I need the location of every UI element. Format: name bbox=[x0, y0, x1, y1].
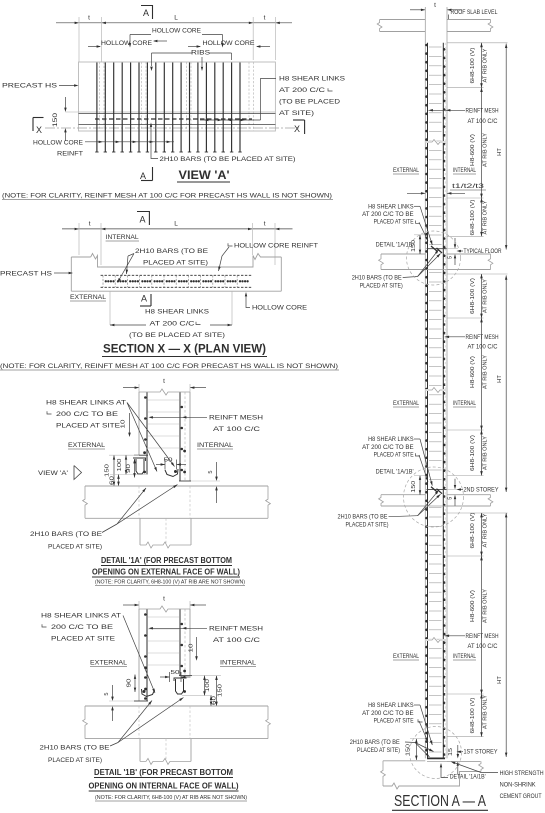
svg-text:NON-SHRINK: NON-SHRINK bbox=[500, 781, 537, 788]
stage extension lines bbox=[447, 87, 484, 89]
DETAIL 1B floor slab bbox=[85, 705, 268, 707]
svg-text:PLACED AT SITE: PLACED AT SITE bbox=[51, 636, 115, 643]
svg-text:2H10 BARS (TO BE PLACED AT SIT: 2H10 BARS (TO BE PLACED AT SITE) bbox=[160, 156, 296, 163]
svg-text:HT: HT bbox=[497, 148, 503, 156]
VIEW A - 2H10 bars dashed line bbox=[95, 118, 252, 120]
roof slab bbox=[380, 19, 426, 21]
svg-text:H8 SHEAR LINKS: H8 SHEAR LINKS bbox=[368, 436, 414, 443]
svg-text:HIGH STRENGTH: HIGH STRENGTH bbox=[500, 770, 544, 777]
svg-text:2H10 BARS (TO BE: 2H10 BARS (TO BE bbox=[135, 248, 208, 255]
detail wall internal face bbox=[189, 392, 191, 481]
svg-text:INTERNAL: INTERNAL bbox=[197, 442, 234, 449]
SECTION X-X top dimension line bbox=[62, 228, 101, 230]
svg-text:VIEW 'A': VIEW 'A' bbox=[179, 170, 230, 182]
svg-text:DETAIL '1A/1B': DETAIL '1A/1B' bbox=[376, 242, 414, 249]
VIEW A - section cut line X-X bbox=[45, 127, 300, 129]
floor slab right segment bbox=[447, 494, 491, 496]
svg-text:EXTERNAL: EXTERNAL bbox=[393, 400, 419, 407]
DETAIL 1A junction bar dots bbox=[143, 451, 146, 454]
svg-text:AT RIB ONLY: AT RIB ONLY bbox=[483, 48, 489, 82]
dimension 60 1B bbox=[210, 696, 212, 706]
svg-text:PLACED AT SITE: PLACED AT SITE bbox=[374, 451, 414, 458]
leader 2H10 1A diagonals bbox=[102, 524, 117, 533]
svg-text:EXTERNAL: EXTERNAL bbox=[90, 660, 128, 667]
junction bar marks bbox=[431, 246, 438, 252]
svg-text:AT 200 C/C: AT 200 C/C bbox=[150, 321, 196, 328]
svg-text:AT RIB ONLY: AT RIB ONLY bbox=[483, 436, 489, 470]
DETAIL 1A external leaf bottom tick bbox=[134, 454, 148, 456]
svg-text:6H8-100 (V): 6H8-100 (V) bbox=[470, 199, 476, 235]
dimension 100 1A bbox=[125, 455, 127, 474]
svg-text:6H8-100 (V): 6H8-100 (V) bbox=[470, 47, 476, 83]
svg-text:AT 200 C/C: AT 200 C/C bbox=[279, 87, 326, 94]
svg-text:L: L bbox=[174, 221, 178, 228]
svg-text:INTERNAL: INTERNAL bbox=[453, 167, 476, 174]
leader 2H10 1B diagonals bbox=[110, 743, 118, 747]
detail wall core rungs bbox=[148, 399, 179, 401]
dimension 150 1B bbox=[216, 676, 218, 706]
svg-text:H8 SHEAR LINKS AT: H8 SHEAR LINKS AT bbox=[46, 400, 126, 407]
svg-text:OPENING ON INTERNAL FACE OF WA: OPENING ON INTERNAL FACE OF WALL) bbox=[89, 782, 239, 791]
dimension 5 1B bbox=[112, 685, 114, 698]
svg-text:ROOF SLAB LEVEL: ROOF SLAB LEVEL bbox=[451, 9, 498, 16]
wall bottom end plate bbox=[427, 757, 445, 759]
dimension 90 1B bbox=[134, 675, 136, 693]
svg-text:EXTERNAL: EXTERNAL bbox=[68, 442, 106, 449]
svg-text:HOLLOW CORE: HOLLOW CORE bbox=[152, 28, 201, 35]
svg-text:HOLLOW CORE REINFT: HOLLOW CORE REINFT bbox=[234, 243, 318, 250]
leader REINFT MESH 1B bbox=[150, 627, 207, 629]
detail circle at junction bbox=[407, 231, 461, 285]
svg-text:X: X bbox=[294, 124, 300, 134]
svg-text:90: 90 bbox=[127, 679, 133, 688]
svg-text:PLACED AT SITE): PLACED AT SITE) bbox=[346, 522, 389, 529]
svg-text:5: 5 bbox=[447, 497, 453, 500]
SECTION A-A wall faces full height bbox=[424, 7, 426, 758]
VIEW A - precast wall outline bbox=[79, 62, 276, 131]
svg-text:AT 100 C/C: AT 100 C/C bbox=[468, 643, 498, 650]
svg-text:REINFT MESH: REINFT MESH bbox=[466, 633, 499, 640]
dimension 150 at junction bbox=[419, 235, 421, 254]
svg-text:TYPICAL FLOOR: TYPICAL FLOOR bbox=[464, 248, 502, 255]
svg-text:PLACED AT SITE): PLACED AT SITE) bbox=[48, 757, 102, 764]
svg-text:AT RIB ONLY: AT RIB ONLY bbox=[483, 200, 489, 234]
svg-text:2H10 BARS (TO BE: 2H10 BARS (TO BE bbox=[350, 739, 400, 746]
svg-text:REINFT MESH: REINFT MESH bbox=[209, 415, 264, 422]
section flag X left bbox=[32, 118, 34, 132]
svg-text:AT 100 C/C: AT 100 C/C bbox=[213, 426, 261, 433]
svg-text:DETAIL '1A/1B': DETAIL '1A/1B' bbox=[450, 773, 486, 780]
DETAIL 1B top break bbox=[139, 606, 190, 612]
svg-text:t: t bbox=[163, 378, 165, 385]
svg-text:CEMENT GROUT: CEMENT GROUT bbox=[500, 793, 542, 800]
svg-text:EXTERNAL: EXTERNAL bbox=[393, 653, 419, 660]
svg-text:H8 SHEAR LINKS: H8 SHEAR LINKS bbox=[145, 309, 209, 316]
leader REINFT MESH 1A bbox=[150, 416, 207, 418]
svg-text:OPENING ON EXTERNAL FACE OF WA: OPENING ON EXTERNAL FACE OF WALL) bbox=[92, 568, 240, 577]
svg-text:10: 10 bbox=[189, 644, 195, 653]
leader H8 links 1A diagonals bbox=[127, 403, 175, 467]
junction wall bottom tick bbox=[427, 488, 447, 490]
svg-text:2ND STOREY: 2ND STOREY bbox=[464, 487, 499, 494]
svg-text:6H8-100 (V): 6H8-100 (V) bbox=[470, 278, 476, 314]
svg-text:HT: HT bbox=[497, 676, 503, 684]
leader 2H10 diagonals bbox=[403, 277, 418, 278]
svg-text:AT RIB ONLY: AT RIB ONLY bbox=[483, 279, 489, 313]
svg-text:t: t bbox=[163, 596, 165, 603]
svg-text:t: t bbox=[264, 15, 266, 22]
svg-text:A: A bbox=[139, 215, 145, 225]
svg-text:2H10 BARS (TO BE: 2H10 BARS (TO BE bbox=[30, 531, 102, 538]
svg-text:H8-600 (V): H8-600 (V) bbox=[470, 590, 476, 622]
svg-text:PLACED AT SITE): PLACED AT SITE) bbox=[48, 544, 102, 551]
svg-text:H8 SHEAR LINKS: H8 SHEAR LINKS bbox=[279, 76, 345, 83]
svg-text:60: 60 bbox=[212, 696, 218, 705]
leader 2H10 X-X bbox=[128, 254, 134, 257]
detail wall external mesh with bar dots bbox=[146, 392, 148, 474]
svg-text:REINFT MESH: REINFT MESH bbox=[466, 108, 499, 115]
svg-text:t: t bbox=[264, 221, 266, 228]
DETAIL 1B rungs bbox=[148, 616, 179, 618]
DETAIL 1B mesh dots bbox=[144, 613, 147, 616]
svg-text:t: t bbox=[434, 2, 436, 9]
svg-text:10: 10 bbox=[121, 420, 127, 429]
DETAIL 1A wall below floor bbox=[139, 518, 141, 545]
svg-text:HOLLOW CORE: HOLLOW CORE bbox=[203, 40, 255, 47]
foundation outline bbox=[383, 760, 425, 762]
dimension 150 at junction bbox=[419, 476, 421, 495]
svg-text:AT RIB ONLY: AT RIB ONLY bbox=[483, 695, 489, 729]
svg-text:EXTERNAL: EXTERNAL bbox=[393, 167, 419, 174]
svg-text:RIBS: RIBS bbox=[191, 50, 210, 57]
svg-text:A: A bbox=[140, 171, 146, 181]
detail wall dashed core line bbox=[184, 392, 186, 481]
DETAIL 1B H8 link at opening bbox=[176, 679, 184, 694]
DETAIL 1B link hook external side bbox=[142, 689, 155, 697]
svg-text:t1/t2/t3: t1/t2/t3 bbox=[452, 183, 485, 190]
svg-text:PLACED AT SITE): PLACED AT SITE) bbox=[143, 260, 208, 267]
svg-text:(NOTE: FOR CLARITY, 6H8-100 (V: (NOTE: FOR CLARITY, 6H8-100 (V) AT RIB A… bbox=[95, 795, 247, 801]
svg-text:150: 150 bbox=[53, 112, 59, 127]
stage extension lines at storey tops bbox=[447, 42, 508, 44]
svg-text:6H8-100 (V): 6H8-100 (V) bbox=[470, 697, 476, 733]
svg-text:PLACED AT SITE): PLACED AT SITE) bbox=[357, 747, 400, 754]
VIEW A - bottom band lines bbox=[79, 111, 276, 113]
svg-text:INTERNAL: INTERNAL bbox=[453, 653, 476, 660]
svg-text:15: 15 bbox=[448, 748, 454, 756]
svg-text:AT 200 C/C TO BE: AT 200 C/C TO BE bbox=[362, 444, 414, 451]
detail wall mesh dots bbox=[144, 396, 147, 399]
svg-text:EXTERNAL: EXTERNAL bbox=[70, 294, 107, 301]
svg-text:(TO BE PLACED: (TO BE PLACED bbox=[279, 99, 341, 106]
DETAIL 1B mesh lines bbox=[146, 609, 148, 701]
svg-text:HT: HT bbox=[497, 375, 503, 383]
svg-text:SECTION X — X (PLAN VIEW): SECTION X — X (PLAN VIEW) bbox=[103, 344, 266, 356]
svg-text:REINFT MESH: REINFT MESH bbox=[466, 334, 499, 341]
svg-text:X: X bbox=[36, 125, 42, 135]
DETAIL 1A link hook internal side bbox=[165, 469, 178, 477]
svg-text:(NOTE: FOR CLARITY, 6H8-100 (V: (NOTE: FOR CLARITY, 6H8-100 (V) AT RIB A… bbox=[95, 580, 245, 586]
VIEW A - dimension extension lines bbox=[78, 17, 80, 62]
svg-text:PRECAST HS: PRECAST HS bbox=[2, 83, 57, 90]
svg-text:2H10 BARS (TO BE: 2H10 BARS (TO BE bbox=[338, 514, 388, 521]
leader H8 links diagonals bbox=[414, 438, 420, 440]
svg-text:2H10 BARS (TO BE: 2H10 BARS (TO BE bbox=[352, 275, 402, 282]
svg-text:DETAIL '1B' (FOR PRECAST BOTTO: DETAIL '1B' (FOR PRECAST BOTTOM bbox=[94, 768, 233, 777]
detail wall top break bbox=[139, 389, 190, 395]
svg-text:INTERNAL: INTERNAL bbox=[453, 400, 476, 407]
svg-text:200 C/C TO BE: 200 C/C TO BE bbox=[51, 624, 113, 631]
svg-text:AT 100 C/C: AT 100 C/C bbox=[468, 118, 498, 125]
floor slab left segment bbox=[381, 494, 425, 496]
svg-text:A: A bbox=[143, 8, 149, 18]
dimension 5 at junction bbox=[454, 238, 456, 246]
svg-text:(NOTE: FOR CLARITY, REINFT MES: (NOTE: FOR CLARITY, REINFT MESH AT 100 C… bbox=[0, 363, 338, 370]
H8 shear links dimension under wall bbox=[109, 291, 111, 325]
svg-text:2H10 BARS (TO BE: 2H10 BARS (TO BE bbox=[40, 745, 110, 752]
svg-text:150: 150 bbox=[411, 481, 417, 493]
dimension 5 at junction bbox=[454, 479, 456, 487]
svg-text:AT RIB ONLY: AT RIB ONLY bbox=[483, 589, 489, 623]
floor slab right segment bbox=[447, 253, 491, 255]
svg-text:PLACED AT SITE: PLACED AT SITE bbox=[374, 717, 414, 724]
detail circle at junction bbox=[404, 467, 464, 527]
svg-text:6H8-100 (V): 6H8-100 (V) bbox=[470, 512, 476, 548]
DETAIL 1A floor slab bbox=[85, 485, 268, 487]
VIEW A - vertical rebar (shear link legs) bbox=[96, 63, 98, 153]
svg-text:6H8-100 (V): 6H8-100 (V) bbox=[470, 435, 476, 471]
DETAIL 1B wall faces bbox=[138, 609, 140, 701]
SECTION A-A mesh lines with dots bbox=[427, 43, 429, 759]
SECTION A-A wall mid-storey breaks bbox=[425, 140, 447, 145]
leader H8 links diagonals bbox=[414, 205, 420, 207]
svg-text:INTERNAL: INTERNAL bbox=[106, 234, 140, 241]
hollow core reinft arrow row bbox=[85, 141, 174, 143]
X-X dimension extension lines bbox=[78, 223, 80, 255]
svg-text:AT 200 C/C TO BE: AT 200 C/C TO BE bbox=[362, 211, 414, 218]
dimension 5 1A bbox=[216, 462, 218, 478]
svg-text:HOLLOW CORE: HOLLOW CORE bbox=[33, 140, 83, 147]
dimension 15 grout gap bbox=[457, 745, 459, 755]
svg-text:t: t bbox=[88, 15, 90, 22]
svg-text:150: 150 bbox=[105, 464, 111, 477]
svg-text:PLACED AT SITE: PLACED AT SITE bbox=[374, 219, 414, 226]
SECTION A-A core rungs bbox=[429, 46, 442, 48]
svg-text:200 C/C TO BE: 200 C/C TO BE bbox=[56, 411, 118, 418]
svg-text:SECTION A — A: SECTION A — A bbox=[394, 793, 487, 810]
svg-text:(NOTE: FOR CLARITY, REINFT MES: (NOTE: FOR CLARITY, REINFT MESH AT 100 C… bbox=[2, 193, 332, 200]
svg-text:L: L bbox=[174, 15, 178, 22]
svg-text:H8-600 (V): H8-600 (V) bbox=[470, 134, 476, 166]
svg-text:PLACED AT SITE: PLACED AT SITE bbox=[56, 423, 120, 430]
svg-text:AT RIB ONLY: AT RIB ONLY bbox=[483, 355, 489, 389]
svg-text:150: 150 bbox=[406, 744, 412, 756]
svg-text:VIEW 'A': VIEW 'A' bbox=[38, 470, 68, 477]
dimension 90 1A bbox=[134, 459, 136, 478]
svg-text:A: A bbox=[141, 294, 147, 304]
dimension 150 1A bbox=[113, 455, 115, 486]
DETAIL 1B junction bar dots bbox=[144, 666, 147, 669]
detail wall external face bbox=[138, 392, 140, 455]
SECTION A-A dashed core line bbox=[444, 43, 446, 759]
DETAIL 1A internal leaf bottom tick bbox=[179, 480, 191, 482]
svg-text:1ST STOREY: 1ST STOREY bbox=[464, 749, 498, 756]
svg-text:5: 5 bbox=[208, 470, 214, 473]
dimension 100 1B bbox=[204, 676, 206, 696]
X-X wall outline bbox=[70, 257, 72, 291]
svg-text:100: 100 bbox=[205, 679, 211, 692]
svg-text:DETAIL '1A' (FOR PRECAST BOTTO: DETAIL '1A' (FOR PRECAST BOTTOM bbox=[101, 556, 232, 565]
DETAIL 1A H8 link at opening bbox=[136, 459, 144, 474]
detail circle 1st storey bbox=[410, 727, 462, 779]
svg-text:H8 SHEAR LINKS: H8 SHEAR LINKS bbox=[368, 203, 414, 210]
X-X hollow core band with reinft dots bbox=[101, 274, 252, 276]
dimension 150 1st storey bbox=[415, 739, 417, 760]
dimension 60 1A bbox=[118, 475, 120, 487]
junction wall bottom tick bbox=[427, 248, 447, 250]
DETAIL 1B leaf bottom ticks bbox=[134, 700, 148, 702]
section flag X right bbox=[304, 120, 306, 134]
stage dimension lines with arrows bbox=[481, 43, 483, 88]
svg-text:HOLLOW CORE: HOLLOW CORE bbox=[101, 40, 152, 47]
svg-text:H8 SHEAR LINKS AT: H8 SHEAR LINKS AT bbox=[41, 613, 121, 620]
svg-text:5: 5 bbox=[447, 256, 453, 259]
svg-text:DETAIL '1A/1B': DETAIL '1A/1B' bbox=[376, 469, 414, 476]
leader H8 links 1B diagonal bbox=[123, 616, 155, 694]
VIEW A - hollow core dashed edges bbox=[99, 62, 101, 131]
svg-text:5: 5 bbox=[104, 692, 110, 695]
svg-text:t: t bbox=[89, 221, 91, 228]
svg-text:50: 50 bbox=[171, 670, 180, 676]
svg-text:H8-600 (V): H8-600 (V) bbox=[470, 356, 476, 388]
svg-text:(TO BE PLACED AT SITE): (TO BE PLACED AT SITE) bbox=[129, 332, 225, 339]
leader H8 shear links bbox=[261, 79, 277, 121]
svg-text:AT 100 C/C: AT 100 C/C bbox=[213, 637, 261, 644]
svg-text:PLACED AT SITE): PLACED AT SITE) bbox=[360, 282, 403, 289]
HT dimension lines bbox=[505, 44, 507, 250]
svg-text:AT 200 C/C TO BE: AT 200 C/C TO BE bbox=[362, 710, 414, 717]
dimension 150 left bbox=[64, 97, 66, 110]
svg-text:100: 100 bbox=[117, 459, 123, 472]
floor slab left segment bbox=[381, 253, 425, 255]
svg-text:INTERNAL: INTERNAL bbox=[220, 660, 257, 667]
svg-text:PRECAST HS: PRECAST HS bbox=[0, 271, 52, 278]
svg-text:H8 SHEAR LINKS: H8 SHEAR LINKS bbox=[368, 702, 414, 709]
leader 2H10 bars up arrow bbox=[151, 126, 158, 159]
VIEW A - top dimension line bbox=[56, 22, 102, 24]
DETAIL 1B wall below floor bbox=[139, 739, 141, 762]
svg-text:AT 100 C/C: AT 100 C/C bbox=[468, 344, 498, 351]
svg-text:AT RIB ONLY: AT RIB ONLY bbox=[483, 133, 489, 167]
svg-text:90: 90 bbox=[126, 464, 132, 473]
svg-text:150: 150 bbox=[218, 684, 224, 697]
junction bar marks bbox=[431, 487, 438, 493]
svg-text:AT RIB ONLY: AT RIB ONLY bbox=[483, 513, 489, 547]
svg-text:REINFT MESH: REINFT MESH bbox=[209, 626, 264, 633]
svg-text:AT SITE): AT SITE) bbox=[279, 110, 314, 117]
svg-text:HOLLOW CORE: HOLLOW CORE bbox=[252, 305, 307, 312]
svg-text:60: 60 bbox=[110, 476, 116, 485]
svg-text:REINFT: REINFT bbox=[57, 151, 83, 158]
detail wall internal mesh with bar dots bbox=[179, 392, 181, 481]
leader 2H10 diagonals bbox=[389, 516, 418, 517]
